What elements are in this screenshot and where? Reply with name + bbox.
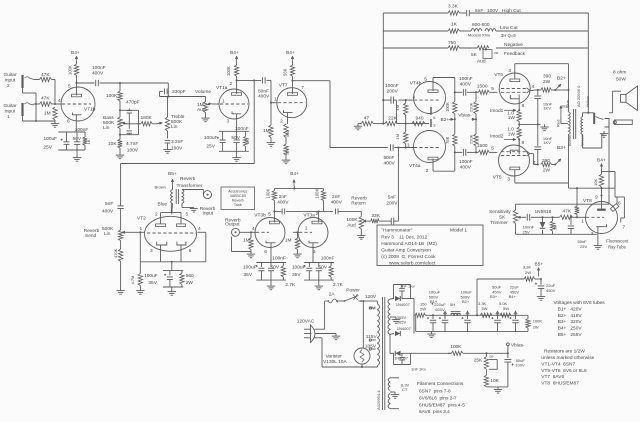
ground 1M VT3a — [293, 250, 301, 258]
diode 1N4007 D1 — [395, 296, 411, 307]
label green OT — [580, 135, 585, 146]
snubber bottom loop — [394, 353, 411, 364]
label pin 1 VT7 — [274, 97, 277, 103]
svg-text:Blue: Blue — [158, 202, 168, 208]
wire VT3a plate to return — [324, 210, 334, 212]
label sensitivity — [489, 209, 511, 226]
label 150 2W — [420, 302, 427, 312]
label pin 6 VT1b — [67, 119, 70, 125]
wire cathode box top VT1b — [58, 131, 85, 133]
wire B5+ feed — [476, 279, 524, 316]
wire plate node VT1b — [75, 76, 77, 85]
label 120V — [365, 294, 377, 300]
label 5V tap — [369, 306, 376, 312]
svg-text:5H: 5H — [450, 302, 455, 307]
svg-text:5W: 5W — [482, 306, 488, 311]
grid rows VT5 — [501, 151, 530, 156]
capacitor 50nF 400V coupling — [237, 77, 271, 99]
wire input2 to grid — [52, 80, 56, 105]
capacitor 5nF 400V reverb send — [102, 201, 124, 230]
ground return pot — [357, 229, 365, 239]
transformer PT core — [383, 297, 385, 410]
text B4 voltage — [558, 326, 583, 332]
wire treble top — [167, 97, 169, 118]
svg-text:2: 2 — [155, 212, 158, 218]
plate VT5 — [510, 167, 520, 183]
wire eye gnd bus — [516, 233, 598, 235]
transformer PT primary — [378, 304, 380, 366]
label pin 3 VT4 — [433, 123, 436, 128]
label pin 3 VT5 — [507, 176, 510, 182]
svg-text:1: 1 — [305, 226, 308, 232]
text notes line1 — [544, 349, 585, 355]
grid VT7 — [278, 102, 306, 104]
capacitor 330pF bridge — [160, 89, 186, 97]
svg-text:220K: 220K — [468, 134, 473, 144]
svg-text:B5+: B5+ — [168, 171, 177, 177]
resistor 1K cathode VT1a — [243, 131, 250, 151]
tube VT5 pentode — [499, 145, 530, 176]
svg-text:220K: 220K — [468, 102, 473, 112]
svg-text:B2+: B2+ — [441, 117, 450, 123]
grid dashes VT2 — [147, 232, 196, 234]
diode 1N5818 — [540, 216, 546, 234]
svg-text:450V: 450V — [546, 288, 556, 293]
label pin 8 VT5 — [522, 140, 525, 146]
svg-text:B1+: B1+ — [430, 299, 438, 304]
svg-text:VT3b: VT3b — [254, 212, 266, 218]
grid wire VT8 — [586, 216, 604, 218]
svg-text:1N4007: 1N4007 — [397, 326, 412, 331]
wire primary top — [363, 301, 377, 304]
svg-text:120VAC: 120VAC — [297, 318, 315, 324]
label pin 2 VT1a — [230, 81, 233, 87]
svg-text:Reverb: Reverb — [180, 176, 196, 182]
svg-text:470K: 470K — [113, 248, 118, 258]
svg-text:B4+: B4+ — [290, 171, 299, 177]
label brown VT2 — [155, 185, 166, 190]
label yellow OT — [585, 96, 590, 108]
resistor 390 2W screen VT6 — [537, 74, 555, 93]
label fuse 2A — [329, 292, 336, 298]
wire vbias — [486, 346, 509, 358]
svg-text:100K: 100K — [533, 319, 543, 324]
resistor 180K — [141, 115, 153, 126]
svg-text:Aud: Aud — [477, 59, 486, 65]
resistor 100K 2W bleeder — [526, 315, 543, 331]
svg-text:B4+ 250V: B4+ 250V — [558, 326, 583, 332]
wire reverb sec bottom — [182, 204, 194, 208]
deflector VT8 — [610, 172, 624, 219]
tube VT4b triode — [414, 82, 446, 114]
cathode VT3b — [266, 241, 276, 263]
label pin 2 VT2 — [155, 212, 158, 218]
svg-text:400V: 400V — [92, 71, 104, 77]
svg-text:Trimmer: Trimmer — [490, 220, 508, 226]
grid VT3a — [299, 231, 312, 233]
svg-text:3.2nF: 3.2nF — [171, 139, 183, 145]
resistor 22K feedback — [373, 116, 429, 126]
svg-text:Negative: Negative — [504, 42, 523, 48]
label reverb transformer — [177, 176, 203, 189]
svg-text:VT2: VT2 — [137, 215, 146, 221]
grid VT4a — [406, 147, 441, 149]
tube VT8 eye — [586, 202, 618, 234]
svg-text:1K: 1K — [86, 139, 91, 144]
transformer reverb secondary — [182, 190, 184, 204]
svg-text:100V: 100V — [127, 148, 139, 154]
label 2nF 400V VT3 — [277, 194, 289, 206]
svg-text:VT8 6HU5/EM87: VT8 6HU5/EM87 — [541, 380, 579, 386]
svg-text:6V6/6L6 pins 2-7: 6V6/6L6 pins 2-7 — [419, 395, 457, 401]
svg-text:10K: 10K — [490, 378, 499, 384]
resistor 390 2W screen VT5 — [537, 158, 555, 174]
wire VT7 plate out — [293, 81, 388, 148]
speaker — [613, 86, 637, 125]
svg-text:Vbias-: Vbias- — [511, 342, 525, 348]
label pin 2 VT7 — [280, 119, 283, 125]
label VT4b — [410, 81, 422, 87]
svg-text:400V: 400V — [460, 165, 472, 171]
svg-text:100K: 100K — [106, 93, 118, 99]
target bar VT8 — [597, 209, 606, 211]
transformer reverb primary — [171, 186, 173, 215]
svg-text:47K: 47K — [563, 209, 572, 215]
wire feedback bus right vertical (yellow) — [587, 13, 589, 113]
svg-text:Blue: Blue — [565, 99, 570, 108]
diode 1N4007 D3 — [390, 351, 409, 361]
wire fb cap down — [393, 100, 396, 124]
capacitor 100uF 35V cathode VT2 — [144, 262, 183, 287]
svg-text:Green: Green — [580, 135, 585, 146]
resistor 560 cathode VT7 — [284, 124, 290, 138]
resistor sense divider — [575, 188, 579, 217]
svg-text:750: 750 — [448, 40, 456, 46]
wire bias winding — [389, 334, 391, 353]
svg-text:75K: 75K — [445, 136, 450, 144]
label B5+ arrow — [535, 262, 544, 277]
ground treble — [163, 147, 171, 153]
text notes line6 — [541, 380, 579, 386]
svg-text:1KV: 1KV — [543, 140, 551, 145]
wire primary return — [354, 366, 378, 368]
svg-text:8: 8 — [522, 140, 525, 146]
svg-text:100nF: 100nF — [459, 159, 473, 165]
wire box bottom VT3b — [256, 279, 286, 281]
ground tone stack — [116, 148, 124, 159]
svg-text:VT6: VT6 — [494, 72, 503, 78]
label 5nF 200V return — [386, 194, 398, 206]
capacitor 4.7nF 100V bass — [126, 124, 139, 154]
svg-text:Ray Tube: Ray Tube — [608, 245, 627, 250]
wire bias bottom — [486, 386, 508, 388]
capacitor 3.2nF 100V treble — [165, 131, 184, 152]
wire VT2 grid2 loop — [139, 231, 206, 263]
resistor 56K plate VT7 — [283, 62, 295, 76]
wire B4+ to 100K — [76, 62, 78, 64]
capacitor 2nF 400V VT3 bridge — [273, 209, 323, 215]
label VT5 — [493, 175, 502, 181]
svg-text:VT8: VT8 — [583, 198, 592, 204]
svg-text:7: 7 — [301, 85, 304, 91]
svg-text:400V: 400V — [384, 160, 396, 166]
svg-text:B3+: B3+ — [557, 145, 566, 151]
svg-text:5W: 5W — [503, 306, 509, 311]
resistor 33K return — [368, 213, 381, 223]
svg-text:560: 560 — [186, 273, 194, 279]
svg-text:CT: CT — [402, 387, 408, 392]
text info line4 — [381, 248, 431, 254]
svg-text:"Hammonator": "Hammonator" — [381, 228, 412, 234]
resistor 1K low cut — [448, 22, 460, 34]
svg-text:365V: 365V — [397, 320, 407, 325]
capacitor 2nF 400V return — [336, 209, 362, 215]
plate VT4a — [428, 152, 455, 171]
tube VT6 pentode — [499, 73, 530, 104]
cathode VT7 — [284, 110, 293, 124]
label 115V tap — [366, 334, 378, 341]
wire slope to bass — [119, 101, 121, 117]
wire 180K to treble wiper — [152, 123, 156, 125]
resistor 5.0K 5W — [499, 301, 511, 317]
svg-text:6SN7 pins 7-8: 6SN7 pins 7-8 — [419, 388, 451, 394]
potentiometer Volume 1M Aud — [197, 97, 212, 114]
svg-text:(c) 2008 G. Forrest Cook: (c) 2008 G. Forrest Cook — [381, 254, 436, 260]
svg-text:100K: 100K — [315, 189, 320, 199]
svg-text:2A: 2A — [329, 292, 336, 298]
svg-text:56K: 56K — [283, 68, 288, 76]
capacitor 100nF 50V VT3b — [268, 256, 286, 281]
svg-text:5K: 5K — [499, 215, 506, 221]
svg-text:100K: 100K — [68, 65, 73, 75]
label 22uF 450V B4+ — [509, 285, 520, 300]
label pin 7 VT7 — [301, 85, 304, 91]
capacitor 50nF 400V reverb dry — [384, 144, 414, 166]
capacitor 5nF 100V high cut — [467, 8, 522, 16]
svg-text:6: 6 — [67, 119, 70, 125]
svg-text:50V: 50V — [319, 264, 328, 270]
svg-text:VT1a: VT1a — [216, 85, 228, 91]
capacitor 50nF 25V eye — [568, 216, 588, 249]
transformer PT HV secondary — [388, 299, 390, 334]
resistor 1K cathode VT1b — [83, 132, 91, 150]
svg-text:Modem Xfmr: Modem Xfmr — [468, 33, 491, 38]
label pin 8 VT6 — [522, 103, 525, 109]
diode 1N4007 D2 — [395, 326, 412, 336]
resistor 1M lower — [395, 124, 408, 149]
svg-text:Vbias-: Vbias- — [458, 113, 472, 119]
svg-text:50V: 50V — [271, 264, 280, 270]
potentiometer 5K trimmer — [513, 210, 521, 224]
capacitor 100nF 50V VT3a — [316, 256, 335, 281]
svg-text:390: 390 — [542, 158, 550, 164]
wire negative feedback line — [383, 47, 588, 49]
svg-text:47K: 47K — [41, 72, 50, 78]
label reverb input — [200, 206, 216, 217]
svg-text:Volume: Volume — [195, 89, 211, 95]
plate VT3b — [269, 211, 279, 223]
svg-text:B3+: B3+ — [490, 294, 498, 299]
svg-text:3: 3 — [508, 68, 511, 74]
resistor 3.3K 5W — [478, 301, 492, 317]
capacitor 22uF B4+ — [509, 311, 518, 331]
label 100uF 500V B2+ — [461, 290, 473, 305]
svg-text:Input: Input — [203, 211, 214, 217]
svg-text:100V: 100V — [515, 363, 525, 368]
label Imod2 — [490, 133, 520, 140]
label A020994-4 — [376, 390, 381, 410]
svg-text:2: 2 — [280, 119, 283, 125]
svg-text:10K: 10K — [593, 179, 598, 186]
ground imod — [540, 124, 548, 130]
svg-text:5: 5 — [186, 212, 189, 218]
svg-text:5: 5 — [491, 86, 494, 92]
svg-text:50nF: 50nF — [384, 155, 395, 161]
svg-text:2nF: 2nF — [332, 194, 340, 200]
label 1N5818 — [535, 209, 552, 215]
svg-text:B4+: B4+ — [597, 158, 606, 164]
resistor 100K plate VT1b — [68, 64, 79, 76]
label 2nF 400V return — [331, 194, 343, 206]
resistor 1500 upper — [477, 84, 497, 95]
label 25K bias — [474, 358, 483, 364]
wire box bottom VT3a — [304, 279, 334, 281]
svg-text:100V: 100V — [487, 8, 499, 14]
svg-text:VT4a: VT4a — [409, 163, 421, 169]
svg-text:3: 3 — [150, 248, 153, 254]
svg-text:100K: 100K — [445, 102, 450, 112]
wire plug hot — [315, 301, 325, 329]
label 105V tap — [365, 343, 377, 350]
wire VT6 plate to OT — [515, 64, 569, 90]
resistor 220K lower bias — [468, 119, 478, 153]
ground mains earth — [332, 334, 340, 340]
svg-text:22uF: 22uF — [546, 283, 556, 288]
svg-text:1M: 1M — [44, 111, 51, 117]
svg-text:1W: 1W — [508, 115, 516, 121]
svg-text:600-600: 600-600 — [472, 22, 490, 28]
wire 47K1 to grid node — [52, 103, 63, 105]
svg-text:200V: 200V — [387, 88, 399, 94]
plate VT4b — [428, 78, 455, 93]
transformer OT primary — [569, 90, 571, 188]
svg-text:Output: Output — [225, 222, 240, 228]
svg-text:6: 6 — [189, 248, 192, 254]
svg-text:400V: 400V — [258, 94, 270, 100]
label blue OT — [565, 99, 570, 108]
svg-text:5: 5 — [491, 146, 494, 152]
ground VT3a cathode — [315, 280, 323, 290]
wire speaker feed — [609, 91, 621, 113]
svg-text:1M: 1M — [285, 238, 292, 244]
capacitor 100nF eye — [522, 214, 543, 221]
svg-text:4: 4 — [533, 160, 536, 166]
svg-text:5nF: 5nF — [105, 201, 113, 207]
svg-text:100nF: 100nF — [272, 256, 286, 262]
svg-text:390: 390 — [543, 74, 551, 80]
wire cathode box bottom VT1a — [219, 150, 249, 152]
wire cathode box top VT1a — [219, 130, 249, 132]
label pin 4 VT5 — [533, 160, 536, 166]
svg-text:100uF: 100uF — [243, 264, 257, 270]
svg-text:400V: 400V — [331, 199, 343, 205]
label 1nF 1Kv top — [400, 283, 415, 288]
wire varistor bottom — [361, 364, 363, 368]
svg-text:Send: Send — [85, 233, 97, 239]
resistor 1M grid VT1b — [44, 107, 57, 120]
wire pin9 — [600, 188, 602, 208]
wire bass wiper row — [124, 123, 141, 125]
svg-text:unless marked otherwise: unless marked otherwise — [541, 355, 594, 361]
svg-text:100nF: 100nF — [459, 76, 473, 82]
resistor 2.7K VT3b — [281, 263, 296, 288]
label pin 3 VT3a — [313, 249, 316, 255]
svg-text:470pF: 470pF — [126, 100, 140, 106]
label pin 1 VT8 — [581, 219, 584, 225]
svg-text:Feedback: Feedback — [504, 51, 526, 57]
tube VT3b triode — [255, 218, 285, 248]
svg-text:47K: 47K — [41, 96, 50, 102]
svg-text:B4+: B4+ — [509, 294, 517, 299]
svg-text:3H Q=9: 3H Q=9 — [501, 33, 516, 38]
tube VT1a triode — [216, 85, 249, 119]
potentiometer Treble 500K Lin — [157, 114, 185, 131]
wire pot bottom — [515, 224, 517, 235]
svg-text:1: 1 — [140, 226, 143, 232]
svg-text:Hammond AO14-1B (M2): Hammond AO14-1B (M2) — [381, 241, 437, 247]
resistor 100K plate VT1a — [226, 62, 239, 76]
cathode VT1b — [73, 113, 82, 133]
label VT4a — [409, 163, 421, 169]
wire VT3 B4+ rail — [274, 186, 323, 190]
svg-text:Varister: Varister — [326, 354, 343, 360]
svg-text:B2+: B2+ — [462, 299, 470, 304]
label pin 2 VT4a — [426, 168, 429, 174]
svg-text:5: 5 — [424, 77, 427, 83]
label pin 5 VT1b — [68, 84, 71, 90]
svg-text:Voltages with 6V6 tubes: Voltages with 6V6 tubes — [554, 300, 606, 306]
wire green — [582, 135, 584, 149]
wire pin3 gnd — [591, 224, 607, 243]
label B4+ VT1a — [230, 50, 239, 62]
wire reverb out to grid — [240, 226, 256, 234]
wire HV top — [390, 298, 394, 301]
ground B5+ — [537, 294, 545, 300]
wire box top VT3a — [304, 262, 334, 264]
svg-text:5K: 5K — [471, 52, 478, 58]
text B1 voltage — [558, 306, 583, 312]
label guitar input 1 — [4, 103, 17, 120]
svg-text:1: 1 — [581, 219, 584, 225]
capacitor 10nF 1KV upper — [534, 90, 552, 124]
ground VT3b cathode — [267, 280, 275, 290]
svg-text:100nF: 100nF — [385, 83, 399, 89]
wire low-cut line — [383, 30, 588, 32]
resistor 150 2W — [414, 313, 426, 317]
svg-text:100uF: 100uF — [292, 264, 306, 270]
wire reverb send tap — [121, 79, 256, 205]
svg-text:Aud: Aud — [347, 223, 356, 229]
svg-text:1M: 1M — [395, 105, 400, 111]
svg-text:100nF: 100nF — [321, 256, 335, 262]
svg-text:3: 3 — [227, 119, 230, 125]
svg-text:Brown: Brown — [155, 185, 166, 190]
label reverb output — [225, 218, 241, 228]
transformer reverb core — [176, 189, 178, 204]
label B2+ arrow — [441, 117, 456, 123]
resistor 1.0 1W lower — [507, 127, 521, 139]
svg-text:Lin: Lin — [171, 124, 178, 130]
